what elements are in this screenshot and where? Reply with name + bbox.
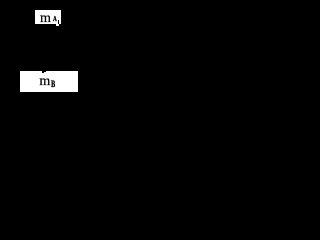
label mB : letter m xyxy=(39,75,50,89)
block mB xyxy=(20,71,78,92)
label mA : subscript A xyxy=(53,16,57,23)
block mA xyxy=(35,10,61,25)
label mB : subscript B xyxy=(51,80,55,89)
string casing stub below block mA xyxy=(56,24,59,26)
label mA : letter m xyxy=(40,12,51,26)
string segment inside block mA xyxy=(58,20,59,24)
string knot on top edge of block mB xyxy=(42,71,44,73)
string segment on top edge of block mB xyxy=(44,71,46,72)
